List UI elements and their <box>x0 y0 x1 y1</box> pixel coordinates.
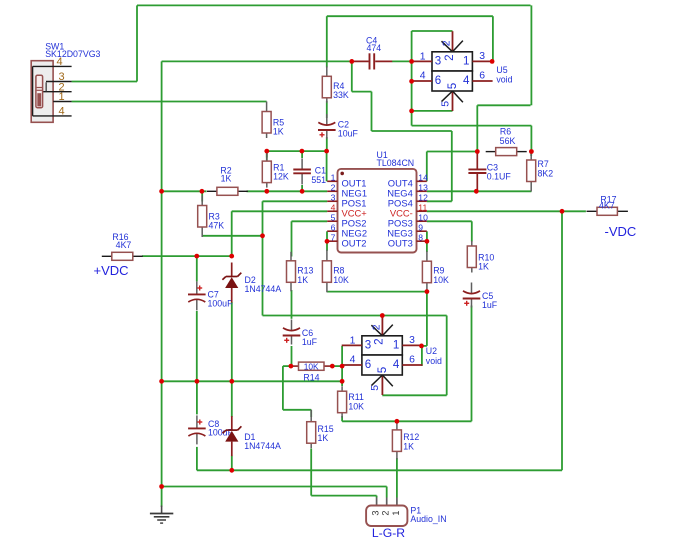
wire <box>301 151 303 158</box>
wire <box>446 316 448 396</box>
wire <box>422 345 427 347</box>
svg-text:3: 3 <box>479 51 485 62</box>
wire <box>332 365 342 367</box>
svg-text:100uF: 100uF <box>208 298 234 308</box>
svg-text:1N4744A: 1N4744A <box>245 284 282 294</box>
svg-text:1K: 1K <box>478 262 489 272</box>
svg-text:4K7: 4K7 <box>116 240 132 250</box>
wire <box>196 447 198 470</box>
wire <box>232 210 328 212</box>
wire <box>412 30 453 32</box>
svg-text:12: 12 <box>418 192 428 202</box>
svg-text:2: 2 <box>443 54 456 60</box>
wire <box>282 366 284 410</box>
resistor R1 <box>262 151 289 188</box>
svg-text:4: 4 <box>420 71 426 82</box>
svg-text:0.1UF: 0.1UF <box>487 172 512 182</box>
wire <box>530 152 532 157</box>
svg-text:2: 2 <box>373 338 386 344</box>
svg-text:1uF: 1uF <box>482 300 498 310</box>
wire <box>196 256 198 281</box>
svg-text:9: 9 <box>418 222 423 232</box>
wire <box>136 5 138 81</box>
wire <box>427 210 586 212</box>
svg-text:13: 13 <box>418 182 428 192</box>
wire <box>421 346 423 366</box>
wire <box>326 231 328 241</box>
svg-text:5: 5 <box>331 212 336 222</box>
wire <box>197 469 562 471</box>
wire <box>561 211 563 470</box>
svg-text:OUT2: OUT2 <box>342 237 367 248</box>
wire <box>427 151 478 153</box>
svg-text:3: 3 <box>365 338 371 351</box>
resistor R8 <box>322 250 349 292</box>
svg-text:1K: 1K <box>273 127 284 137</box>
wire <box>327 291 427 293</box>
wire <box>196 381 198 414</box>
wire <box>161 61 163 507</box>
svg-text:6: 6 <box>409 355 415 366</box>
wire (SW1 pin3 net) <box>72 81 137 83</box>
wire <box>247 190 328 192</box>
wire <box>326 151 328 181</box>
wire <box>327 15 493 17</box>
wire <box>451 131 453 201</box>
svg-text:1: 1 <box>58 91 64 103</box>
svg-text:4: 4 <box>393 358 400 371</box>
wire <box>427 190 532 192</box>
wire <box>266 151 268 161</box>
svg-text:1: 1 <box>463 54 469 67</box>
wire <box>396 458 398 498</box>
resistor R14 <box>291 361 332 382</box>
resistor R12 <box>392 423 419 460</box>
svg-text:8K2: 8K2 <box>538 168 554 178</box>
svg-text:10uF: 10uF <box>338 129 359 139</box>
wire <box>162 190 207 192</box>
resistor R13 <box>287 252 314 291</box>
wire <box>426 292 428 346</box>
resistor R3 <box>198 196 225 238</box>
wire <box>291 346 293 366</box>
wire <box>396 421 398 423</box>
wire <box>231 211 233 256</box>
svg-text:10: 10 <box>418 212 428 222</box>
svg-text:R6: R6 <box>500 126 511 136</box>
wire <box>427 200 452 202</box>
wire <box>283 365 291 367</box>
wire <box>371 92 373 131</box>
svg-text:SK12D07VG3: SK12D07VG3 <box>45 49 100 59</box>
wire <box>426 231 428 252</box>
capacitor C8 <box>188 415 233 444</box>
wire <box>162 486 387 488</box>
capacitor C6 <box>283 320 318 347</box>
wire <box>326 16 328 67</box>
wire <box>266 151 268 157</box>
svg-text:4: 4 <box>463 74 470 87</box>
wire <box>326 101 328 118</box>
wire <box>352 91 372 93</box>
potentiometer U5 <box>412 31 513 111</box>
wire <box>412 110 453 112</box>
svg-text:5: 5 <box>440 101 451 107</box>
svg-text:2: 2 <box>381 510 391 515</box>
svg-text:3: 3 <box>409 335 415 346</box>
wire <box>342 420 471 422</box>
wire <box>310 449 312 496</box>
svg-text:3: 3 <box>331 192 336 202</box>
svg-text:10K: 10K <box>304 361 319 371</box>
wire <box>267 150 327 152</box>
svg-text:void: void <box>426 356 442 366</box>
wire <box>382 394 446 396</box>
wire <box>310 410 312 417</box>
svg-text:3: 3 <box>435 54 441 67</box>
svg-text:4: 4 <box>331 202 336 212</box>
svg-text:1: 1 <box>391 510 401 515</box>
wire <box>326 241 328 251</box>
wire <box>471 221 473 241</box>
wire <box>311 495 376 497</box>
svg-text:TL084CN: TL084CN <box>377 158 415 168</box>
svg-text:4: 4 <box>350 355 356 366</box>
wire <box>372 130 452 132</box>
wire <box>530 126 532 152</box>
svg-text:1: 1 <box>331 173 336 183</box>
wire <box>392 60 412 62</box>
wire <box>162 380 343 382</box>
svg-text:6: 6 <box>435 74 441 87</box>
wire <box>326 137 328 151</box>
resistor R15 <box>307 410 334 449</box>
wire <box>231 302 233 381</box>
svg-text:1uF: 1uF <box>302 337 318 347</box>
wire <box>137 4 531 6</box>
svg-text:1K: 1K <box>221 174 232 184</box>
potentiometer U2 <box>342 315 442 395</box>
wire <box>412 125 532 127</box>
svg-text:6: 6 <box>331 222 336 232</box>
svg-text:-VDC: -VDC <box>605 224 637 239</box>
svg-text:4: 4 <box>58 106 64 118</box>
wire <box>263 315 447 317</box>
wire <box>471 306 473 422</box>
wire <box>476 105 478 151</box>
svg-text:7: 7 <box>331 232 336 242</box>
wire <box>231 381 233 417</box>
wire <box>341 346 343 386</box>
wire <box>263 200 328 202</box>
svg-text:U5: U5 <box>496 65 507 75</box>
capacitor C7 <box>188 281 233 310</box>
svg-text:1: 1 <box>420 51 426 62</box>
wire <box>202 235 262 237</box>
resistor R4 <box>322 66 349 103</box>
svg-text:33K: 33K <box>333 90 349 100</box>
diode D2 <box>222 263 281 303</box>
wire <box>291 221 293 256</box>
resistor R5 <box>262 102 284 139</box>
svg-text:8: 8 <box>418 232 423 242</box>
svg-text:1K: 1K <box>297 275 308 285</box>
svg-text:Audio_IN: Audio_IN <box>410 514 446 524</box>
capacitor C1 <box>293 158 326 184</box>
resistor R16 <box>102 232 143 260</box>
wire <box>262 201 264 315</box>
wire <box>386 487 388 498</box>
resistor R10 <box>467 241 494 273</box>
wire (SW1 pin1 net) <box>72 101 267 103</box>
resistor R9 <box>422 251 449 293</box>
svg-text:R14: R14 <box>303 373 319 383</box>
svg-text:1K: 1K <box>403 441 414 451</box>
svg-text:551: 551 <box>311 175 326 185</box>
switch SW1 <box>31 42 100 123</box>
svg-text:3: 3 <box>371 510 381 515</box>
svg-text:10K: 10K <box>348 401 364 411</box>
svg-text:6: 6 <box>479 71 485 82</box>
svg-text:L-G-R: L-G-R <box>372 526 405 540</box>
wire <box>292 220 328 222</box>
svg-text:void: void <box>496 75 512 85</box>
wire <box>427 220 472 222</box>
svg-text:1: 1 <box>393 338 399 351</box>
wire <box>162 60 352 62</box>
ground <box>150 506 173 524</box>
svg-text:11: 11 <box>418 202 427 212</box>
wire <box>411 31 413 126</box>
wire <box>196 311 198 381</box>
capacitor C2 <box>318 114 358 139</box>
capacitor C5 <box>463 283 498 311</box>
resistor R11 <box>338 386 365 418</box>
wire <box>530 5 532 105</box>
svg-text:5: 5 <box>376 367 389 373</box>
svg-text:2: 2 <box>331 182 336 192</box>
svg-text:56K: 56K <box>500 136 516 146</box>
wire <box>341 416 343 421</box>
svg-text:6: 6 <box>365 358 371 371</box>
resistor R17 <box>587 194 628 215</box>
wire <box>283 409 311 411</box>
wire <box>301 185 303 191</box>
svg-text:5: 5 <box>370 385 381 391</box>
resistor R7 <box>527 151 554 192</box>
wire <box>291 290 293 319</box>
wire (+VDC rail) <box>142 255 232 257</box>
resistor R2 <box>207 166 248 196</box>
svg-text:14: 14 <box>418 173 428 183</box>
wire <box>231 456 233 471</box>
diode D1 <box>223 416 282 456</box>
svg-text:1K: 1K <box>318 433 329 443</box>
svg-text:10K: 10K <box>433 275 449 285</box>
svg-text:2: 2 <box>441 40 452 46</box>
wire <box>426 152 428 182</box>
svg-text:4K7: 4K7 <box>599 201 615 211</box>
wire <box>351 61 353 91</box>
svg-text:474: 474 <box>367 43 382 53</box>
resistor R6 <box>486 126 527 155</box>
wire <box>477 104 530 106</box>
capacitor C4 <box>352 35 392 69</box>
svg-text:47K: 47K <box>209 221 225 231</box>
connector P1 Audio_IN <box>366 498 447 527</box>
svg-text:4: 4 <box>56 56 62 68</box>
svg-text:12K: 12K <box>273 172 289 182</box>
wire <box>201 192 203 202</box>
svg-text:+VDC: +VDC <box>94 263 129 278</box>
svg-text:1N4744A: 1N4744A <box>244 441 281 451</box>
op-amp U1 TL084CN <box>327 150 428 253</box>
svg-text:1: 1 <box>350 335 356 346</box>
svg-text:U2: U2 <box>426 346 437 356</box>
svg-text:5: 5 <box>446 83 459 89</box>
wire <box>492 16 494 61</box>
svg-text:10K: 10K <box>333 275 349 285</box>
wire <box>376 496 378 498</box>
svg-text:2: 2 <box>371 324 382 330</box>
capacitor C3 <box>468 152 511 192</box>
svg-text:OUT3: OUT3 <box>388 237 413 248</box>
